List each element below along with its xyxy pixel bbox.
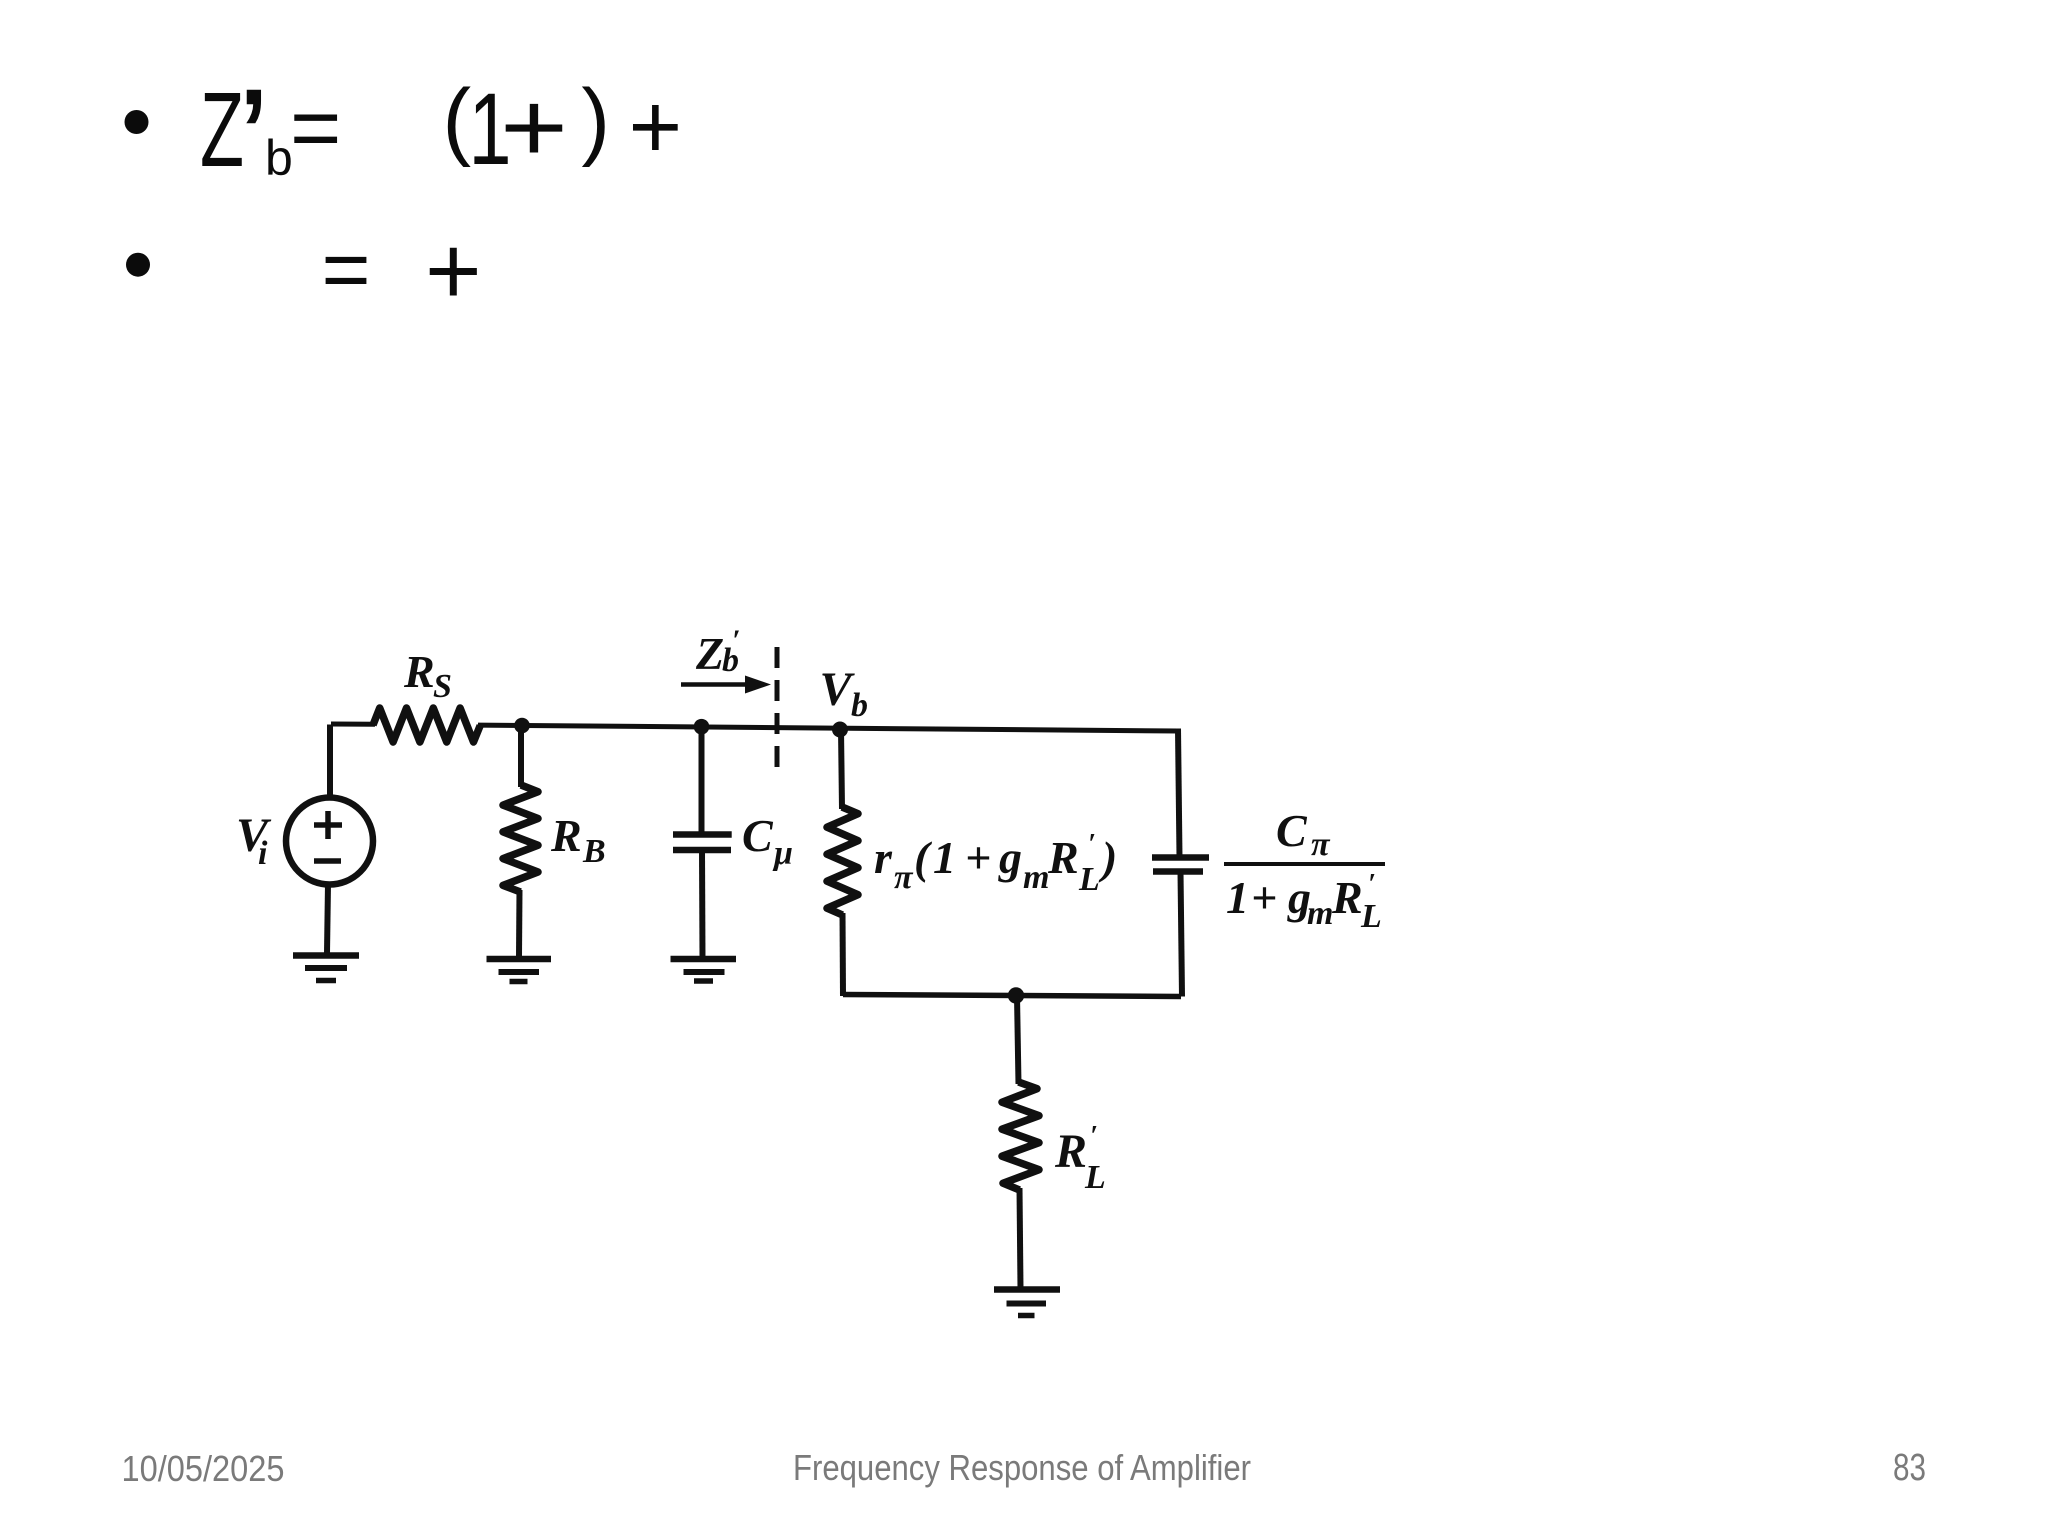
wire: RB top lead [518,726,524,788]
wire: top horizontal rail from RS to Cpi branch [478,725,1178,731]
svg-text:R: R [1331,872,1363,923]
svg-text:μ: μ [772,835,793,872]
label RS [403,646,452,705]
svg-text:L: L [1084,1159,1106,1196]
svg-text:Z: Z [695,628,724,679]
svg-text:R: R [403,646,435,697]
wire: r-pi bottom lead [840,913,847,996]
svg-text:′: ′ [1088,829,1096,860]
wire: top rail left stub Vi to RS [331,722,375,727]
resistor RL' [1002,1082,1039,1190]
label node Vb [820,663,869,724]
capacitor Cmu [673,835,732,851]
label RL' [1054,1121,1106,1196]
label Cmu [742,810,793,872]
wire: RB bottom lead [516,890,523,956]
bullet 1 dot [125,110,149,134]
arrow Zb' looking-in direction [681,676,771,694]
bullet 1 equation Z'b= (1+ ) + [200,57,682,225]
svg-text:C: C [1276,805,1308,856]
svg-text:m: m [1307,895,1333,932]
node junction at RB [514,718,530,734]
wire: Vi source top lead [327,725,333,800]
svg-text:+: + [425,216,482,325]
wire: Cmu top lead [699,727,705,834]
node junction at Cmu [694,719,710,735]
svg-text:L: L [1078,861,1100,898]
ground (below RL') [994,1290,1060,1316]
svg-text:R: R [1054,1125,1087,1178]
svg-text:S: S [433,668,452,705]
svg-text:(: ( [443,72,472,168]
wire: Vi source bottom lead [327,884,328,953]
resistor RB [503,785,538,892]
svg-text:π: π [1311,826,1331,863]
wire: RL' bottom lead [1020,1188,1021,1289]
svg-text:1: 1 [1226,872,1249,923]
wire: r-pi top lead [841,729,842,809]
svg-text:+: + [500,71,568,182]
svg-text:r: r [874,832,893,883]
wire: Cpi branch vertical (top segment) [1178,729,1180,858]
svg-text:1: 1 [933,832,956,883]
wire: Cpi branch vertical (bottom segment) [1181,872,1183,997]
svg-text:R: R [1047,832,1079,883]
svg-text:10/05/2025: 10/05/2025 [122,1448,285,1489]
label Cpi / (1 + gm RL') fraction [1224,805,1385,935]
svg-text:′: ′ [1368,869,1376,900]
label Zb' impedance [695,624,740,679]
bullet 2 equation = + [322,216,482,325]
svg-text:′: ′ [732,624,740,657]
svg-text:b: b [265,130,293,186]
svg-text:R: R [550,810,582,861]
capacitor Cpi [1152,858,1209,872]
node junction on bottom rail [1008,987,1024,1003]
ground (below Vi) [293,956,359,981]
svg-text:L: L [1360,898,1382,935]
svg-text:′: ′ [1090,1121,1098,1152]
svg-text:+: + [629,76,683,178]
svg-text:B: B [582,833,606,870]
wire: bottom horizontal rail [843,995,1181,997]
resistor RS [373,708,480,742]
label Vi [236,809,272,872]
svg-text:b: b [851,687,868,724]
svg-text:C: C [742,810,774,861]
label RB [550,810,606,870]
node Vb junction [832,722,848,738]
resistor r-pi [827,807,858,915]
svg-text:i: i [258,835,268,872]
svg-text:): ) [581,72,610,168]
ground (below RB) [487,959,552,982]
dashed boundary at Zb' [775,647,780,776]
svg-text:=: = [322,222,371,316]
bullet 2 dot [126,253,150,277]
voltage source Vi [286,798,373,885]
svg-text:m: m [1023,859,1049,896]
ground (below Cmu) [671,959,737,981]
svg-text:83: 83 [1893,1447,1926,1489]
svg-text:+: + [1251,872,1277,923]
svg-text:+: + [965,832,991,883]
wire: RL' top lead [1017,996,1019,1085]
svg-text:π: π [894,859,914,896]
wire: Cmu bottom lead [699,850,706,958]
svg-text:Frequency Response of Amplifie: Frequency Response of Amplifier [793,1447,1251,1488]
svg-text:g: g [998,832,1022,883]
label r-pi (1 + gm RL') [874,829,1117,898]
svg-text:=: = [290,78,341,177]
